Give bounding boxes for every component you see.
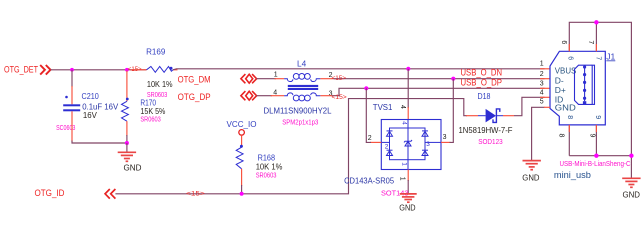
svg-text:3: 3 [443,134,447,141]
svg-text:USB_O_DN: USB_O_DN [461,68,503,78]
svg-text:OTG_ID: OTG_ID [35,188,65,198]
svg-text:C210: C210 [82,91,100,101]
svg-text:GND: GND [124,163,142,172]
svg-text:mini_usb: mini_usb [554,170,591,180]
wire USB_O_DN long run to connector pin 2 [333,78,545,80]
svg-text:D18: D18 [478,91,491,101]
TVS1 diode bottom-right [422,150,428,155]
svg-text:USB_O_DP: USB_O_DP [461,78,503,88]
resistor R168 (vertical zigzag) [236,147,243,169]
svg-text:VBUS: VBUS [555,66,577,76]
TVS1 outer box [381,120,441,170]
diode D18 anode stub [466,115,478,117]
junction node R168 bottom [240,192,244,196]
power VCC_IO circle [239,130,245,136]
svg-text:3: 3 [540,81,544,88]
wire D18 to connector pin 4 [514,97,545,115]
svg-text:8: 8 [566,115,573,119]
TVS1 pin 1 stub down [407,170,409,182]
svg-text:J1: J1 [606,51,615,61]
junction node TVS pin3 riser on DN [451,77,455,81]
ground GND2 (TVS1) [399,194,416,213]
svg-text:9: 9 [588,134,595,138]
wire J1 pin 5 to GND3 [532,107,545,160]
port OTG_DM (double diamond) [241,74,257,83]
svg-text:SR0603: SR0603 [256,170,277,179]
svg-text:<15>: <15> [332,94,347,101]
ground GND1 (under R170) [118,143,142,172]
capacitor C210 plates [63,104,80,111]
pin-1 dot C210 [65,96,68,99]
TVS1 pin 3 wire [425,141,441,143]
wire OTG_DP to L4 pin 4 [257,95,273,97]
svg-text:SPM2p1x1p3: SPM2p1x1p3 [282,117,318,126]
pin-1 dot R169 [170,67,173,70]
port OTG_DET (output chevrons) [40,65,50,75]
svg-text:OTG_DP: OTG_DP [178,92,211,102]
svg-text:2: 2 [368,135,372,142]
svg-text:8: 8 [558,134,565,138]
port OTG_DP (double diamond) [241,91,257,100]
resistor R169 (horizontal zigzag) [131,69,147,71]
svg-text:4: 4 [399,105,406,109]
svg-text:SOD123: SOD123 [478,137,503,146]
junction node R170 top [125,68,129,72]
svg-text:R168: R168 [258,153,276,163]
svg-text:1: 1 [398,177,405,181]
svg-text:2: 2 [540,71,544,78]
wire VBUS long run to connector pin 1 [173,69,545,70]
svg-text:OTG_DET: OTG_DET [4,64,38,74]
svg-text:7: 7 [587,40,594,44]
svg-text:<15>: <15> [332,75,347,82]
TVS1 diode top-right [422,131,428,136]
svg-text:CD143A-SR05: CD143A-SR05 [344,177,395,186]
svg-text:9: 9 [594,115,601,119]
junction node right gnd riser [629,154,633,158]
svg-text:USB-Mini-B-LianSheng-C: USB-Mini-B-LianSheng-C [560,159,631,168]
TVS1 zener diode middle [404,140,412,146]
stub VCC_IO to R168 [241,135,243,147]
capacitor C210 wire top [71,70,73,87]
wire TVS1 pin 4 riser [407,69,409,108]
wire OTG_DM to L4 pin 1 [257,78,277,80]
stub connector pin 1 [540,68,550,70]
junction node TVS pin2 riser on DP [364,86,368,90]
svg-text:1: 1 [540,61,544,68]
svg-text:5: 5 [540,99,544,106]
inductor L4 top winding [284,74,320,82]
svg-text:GND: GND [522,174,539,183]
svg-text:TVS1: TVS1 [373,103,393,112]
junction node TVS1 pin4 on VBUS [406,67,410,71]
svg-text:10K 1%: 10K 1% [147,80,173,89]
TVS1 middle vertical [407,120,409,170]
connector J1 body [550,51,605,125]
TVS1 inner frame [390,128,426,160]
svg-text:4: 4 [273,90,277,97]
svg-text:DLM11SN900HY2L: DLM11SN900HY2L [264,107,333,116]
junction node pin7 top [594,20,598,24]
wire J1 shield pins 6,7 top loop [569,22,631,155]
connector jack drawing [575,65,595,104]
svg-text:6: 6 [567,56,574,60]
svg-text:2: 2 [385,144,389,151]
junction node GND1 [125,141,129,145]
svg-text:1: 1 [274,72,278,79]
svg-text:4: 4 [400,121,407,125]
diode D18 body (schottky) [486,109,500,123]
inductor L4 core bars [288,85,318,90]
svg-text:GND: GND [399,204,416,213]
svg-text:6: 6 [560,40,567,44]
svg-text:<15>: <15> [186,191,205,198]
svg-text:16V: 16V [83,111,98,120]
svg-text:1: 1 [400,162,407,166]
junction node pin9 bottom [594,154,598,158]
svg-text:7: 7 [595,56,602,60]
TVS1 pin 2 wire [381,141,389,143]
wire J1 shield pins 8,9 bottom [568,125,570,156]
ground GND5 (right shield) [622,178,640,199]
port OTG_ID (input chevrons) [105,189,115,199]
wire OTG_ID row [115,99,467,194]
wire OTG_DET row to R169 [51,69,147,71]
svg-text:3: 3 [426,141,430,148]
wire C210 bottom to GND junction [71,111,73,141]
diode D18 cathode stub [503,115,514,117]
junction node C210 top [70,68,74,72]
svg-text:R169: R169 [146,46,166,56]
svg-text:OTG_DM: OTG_DM [178,75,211,85]
inductor L4 bottom winding [284,93,320,101]
TVS1 diode bottom-left [387,150,393,155]
svg-text:4: 4 [540,90,544,97]
svg-text:R170: R170 [140,97,156,107]
svg-text:SR0603: SR0603 [140,114,160,123]
svg-text:L4: L4 [297,59,306,69]
svg-text:VCC_IO: VCC_IO [227,119,257,129]
resistor R170 (vertical zigzag) [126,71,128,102]
svg-text:GND: GND [623,190,641,199]
stub L4 pin 2 [320,78,333,80]
svg-text:GND: GND [555,102,576,112]
wire DP jog up and long run to connector pin 3 [332,88,545,95]
ground GND3 (pin5) [522,161,541,183]
svg-text:1N5819HW-7-F: 1N5819HW-7-F [459,126,513,135]
TVS1 diode top-left [387,131,393,136]
svg-text:D-: D- [555,75,564,85]
stub L4 pin 3 [320,95,332,97]
